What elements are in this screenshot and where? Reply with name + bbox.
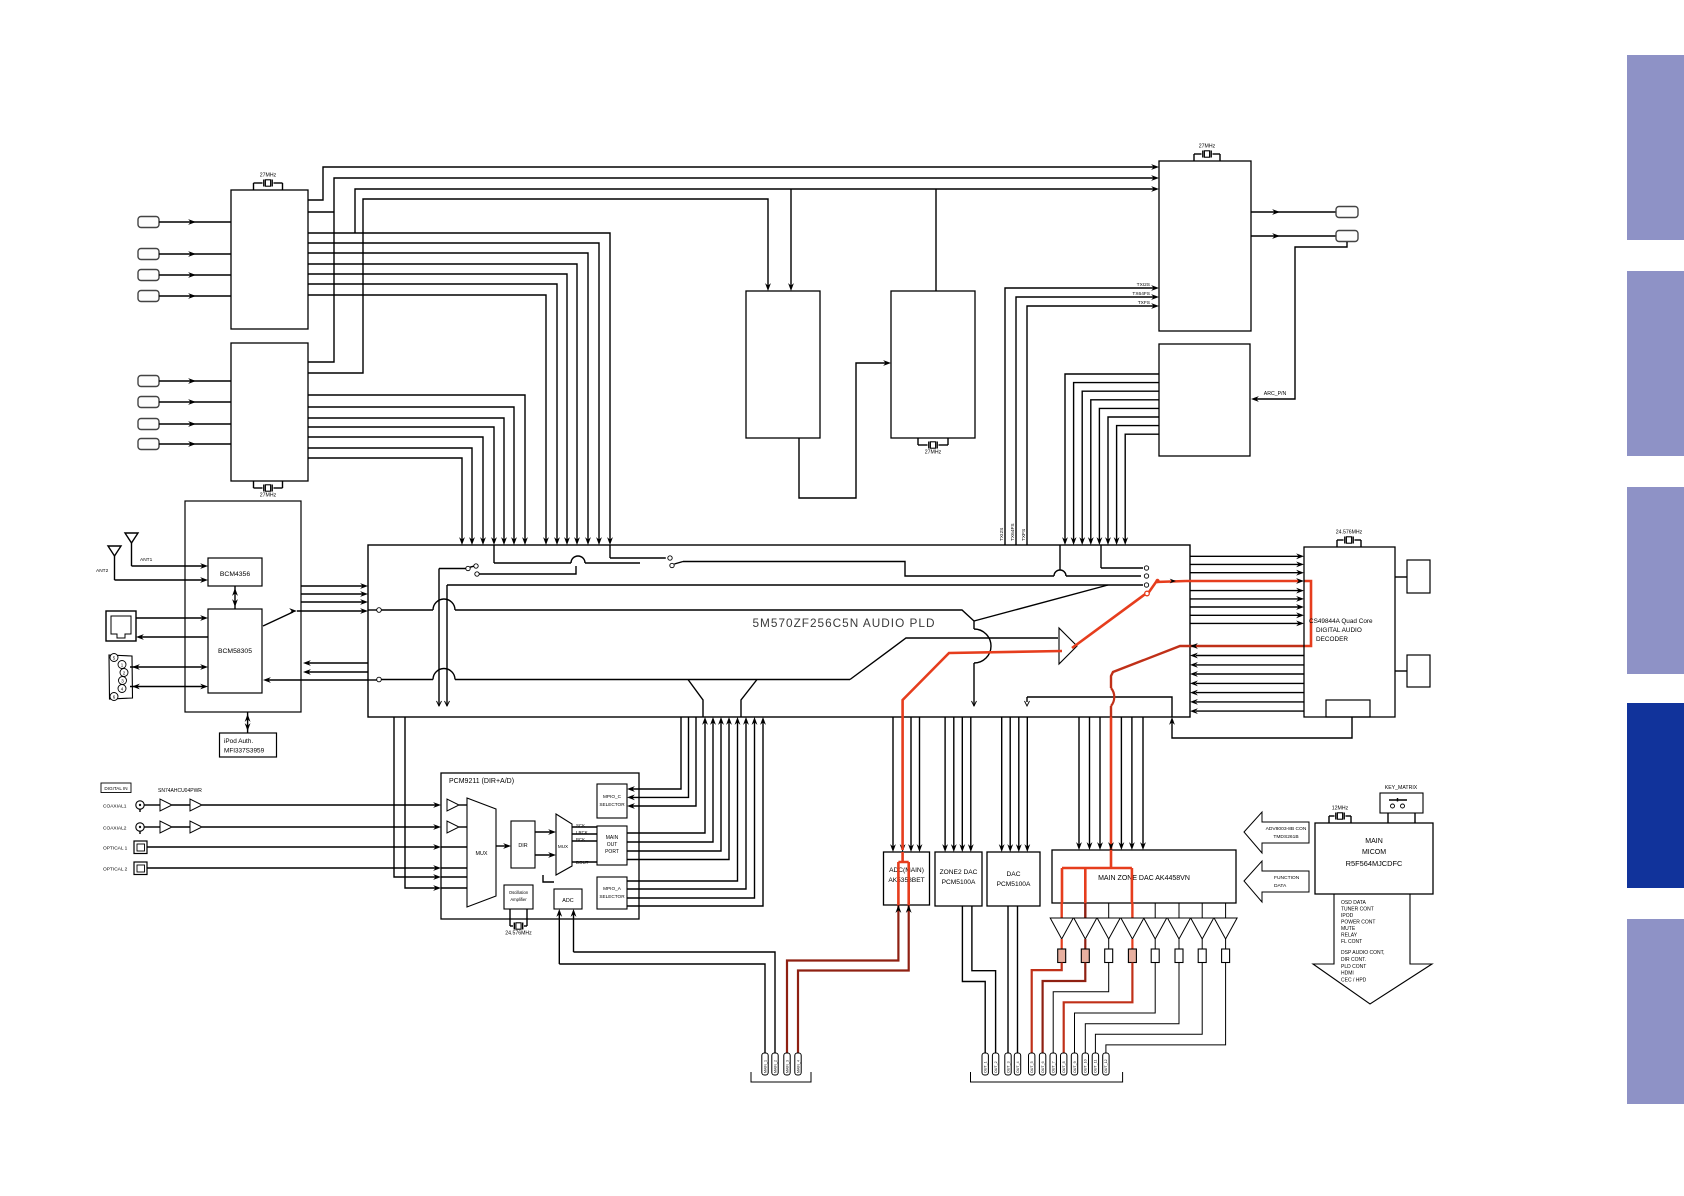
svg-text:Amplifier: Amplifier [510,897,527,902]
dark red wire ADC to pin4 [798,905,909,1053]
red wire PLD to MAIN DAC [1110,717,1113,850]
PCM9211 MPIO_A SELECTOR [597,877,627,909]
svg-text:DSP AUDIO CONT,: DSP AUDIO CONT, [1341,950,1385,956]
svg-text:27MHz: 27MHz [260,173,277,179]
svg-text:OUT_4: OUT_4 [1016,1061,1020,1073]
HDMI input connector J3 [138,270,231,281]
BCM58305 U8 [208,609,262,693]
wire ADC input 2 [571,909,775,1053]
wire branch L3 to block U4 [935,189,937,291]
svg-text:MICOM: MICOM [1362,849,1386,856]
side tab 5 [1627,919,1684,1104]
HDMI input connector J5 [138,376,231,387]
PLD switch SW3 circles [1144,566,1148,587]
connector pin PR5 [1029,1053,1035,1075]
svg-text:CEC / HPD: CEC / HPD [1341,978,1367,984]
wire ANT1 to BCM4356 [132,565,205,567]
svg-text:BCM4356: BCM4356 [220,571,250,578]
PCM9211 MAIN OUT PORT [597,826,627,865]
svg-text:AK5358BET: AK5358BET [888,877,924,884]
svg-text:TXFS: TXFS [1021,529,1027,541]
crystal X7 24.576MHz [510,909,527,919]
op-amp A12 [1214,918,1237,939]
svg-text:MAIN_3: MAIN_3 [785,1060,789,1073]
svg-text:DAC: DAC [1007,871,1021,878]
red wire decoder to PLD return [1111,646,1304,717]
svg-text:MAIN ZONE DAC AK4458VN: MAIN ZONE DAC AK4458VN [1098,875,1190,882]
wire PLD to BCM 2 [307,671,368,673]
DIGITAL IN label [101,783,131,793]
connector pin PL2 [772,1053,778,1075]
HDMI input connector J8 [138,439,231,450]
PCM9211 mux M1 [467,798,496,907]
wire coaxial1 [144,802,441,808]
wire DIN line2 [130,684,208,690]
svg-text:OSD DATA: OSD DATA [1341,900,1366,906]
wire L2 U2/U1 to HDMI TX [308,178,1155,362]
MAIN MICOM U17 [1315,823,1433,894]
svg-text:CS49844A Quad Core: CS49844A Quad Core [1309,618,1373,625]
PCM9211 internal wires [441,805,597,888]
svg-text:OUT_12: OUT_12 [1104,1059,1108,1073]
svg-text:OUT_7: OUT_7 [1052,1061,1056,1073]
ethernet connector J11 [106,611,136,641]
wire BCM4356-BCM58305 [232,586,238,609]
PLD bus line E [1025,697,1173,717]
MICOM control signal list [1341,900,1385,984]
svg-text:12MHz: 12MHz [1332,806,1349,812]
wire ADC input 1 [556,909,765,1053]
wire PLD to PCM mux 1 [394,717,441,880]
bus PLD to ZONE2 DAC [942,717,974,852]
resistor R5 [1151,949,1159,963]
wire PLD to PCM mux 2 [405,717,441,891]
decoder bottom notch [1326,700,1370,717]
wire branch L3 to repeater [790,189,792,287]
svg-text:MAIN_1: MAIN_1 [763,1060,767,1073]
crystal X1 27MHz [254,173,283,191]
ADC(MAIN) U13 [884,852,930,905]
wire U3 to U4 [799,363,886,498]
svg-text:MAIN: MAIN [606,835,619,841]
crystal X2 27MHz [254,481,283,499]
wire BCM to PLD 3 [301,601,364,603]
op-amp A11 [1191,918,1214,939]
crystal X8 12MHz [1329,806,1351,824]
coaxial connector 1 [136,801,144,812]
svg-text:TUNER CONT: TUNER CONT [1341,907,1374,913]
PLD vertical v2 [445,585,450,706]
PLD stub top1 [1059,545,1061,570]
resistor R7 [1198,949,1206,963]
svg-text:iPod Auth.: iPod Auth. [224,738,253,745]
HDMI TX block U5 [1159,161,1251,331]
op-amp A10 [1168,918,1191,939]
svg-text:24.576MHz: 24.576MHz [505,931,532,937]
op-amp A7 [1097,918,1120,939]
svg-text:OUT_9: OUT_9 [1073,1061,1077,1073]
svg-text:COAXIAL2: COAXIAL2 [103,826,127,832]
op-amp A6 [1074,918,1097,939]
PCM9211 mux M2 [556,814,572,875]
svg-text:OUT_1: OUT_1 [984,1061,988,1073]
svg-text:MAIN_2: MAIN_2 [773,1060,777,1073]
PCM9211 DIR [511,821,535,868]
wire L3 U1 to HDMI TX with branches [355,189,1155,233]
connector pin PR2 [992,1053,998,1075]
HDMI input block U2 [231,343,308,481]
decoder side box 1 [1395,560,1430,593]
decoder U11 CS49844A [1304,547,1395,717]
connector pin PR8 [1061,1053,1067,1075]
red wire PLD to decoder [1186,580,1300,583]
buffer A1 [160,799,172,811]
wire TX64FS [1016,297,1155,545]
red path PLD to ADC [903,651,1062,717]
svg-text:RELAY: RELAY [1341,933,1358,939]
side tab 2 [1627,271,1684,456]
svg-text:DIR: DIR [518,843,527,849]
iPod Auth box U9 [220,712,277,757]
PLD bus line A [447,584,1143,586]
svg-text:FUNCTION: FUNCTION [1274,875,1300,881]
svg-text:OPTICAL 2: OPTICAL 2 [103,867,128,873]
wires amps to connector pins [1032,963,1226,1054]
svg-text:MFI337S3959: MFI337S3959 [224,748,265,755]
ZONE2 DAC U14 [935,852,982,906]
PLD buffer amp [1059,628,1077,664]
svg-text:R5F564MJCDFC: R5F564MJCDFC [1346,859,1403,868]
HDMI output connector J10 [1251,231,1358,242]
svg-text:BCM58305: BCM58305 [218,648,252,655]
svg-text:PORT: PORT [605,849,619,855]
crystal X4 27MHz [1194,144,1220,162]
HDMI input connector J7 [138,419,231,430]
connector pin PR11 [1092,1053,1098,1075]
antenna ANT2 [96,546,121,580]
connector pin PR12 [1103,1053,1109,1075]
repeater block U3 [746,291,820,438]
connector pin PL3 [784,1053,790,1075]
PCM9211 oscillation amplifier [504,885,533,909]
ADV8003 arrow [1244,812,1309,853]
svg-text:TX64FS: TX64FS [1010,523,1016,541]
wire DIN line1 [130,664,208,670]
wire BCM to PLD 2 [301,593,364,595]
resistor row [1062,939,1226,949]
red path buffer to switch [1072,581,1186,648]
svg-text:DIGITAL AUDIO: DIGITAL AUDIO [1316,627,1362,634]
svg-text:ARC_P/N: ARC_P/N [1264,391,1287,397]
optical connector 2 [134,862,147,875]
svg-text:PLD CONT: PLD CONT [1341,964,1366,970]
wire ARC_P/N [1256,242,1347,399]
block U4 [891,291,975,438]
resistor R4 [1128,949,1136,963]
wire bus U1 to PLD [308,233,613,545]
svg-text:MAIN: MAIN [1365,838,1383,845]
HDMI input connector J4 [138,291,231,302]
wire BCM to PLD 4 (switched) [263,608,368,626]
HDMI input connector J2 [138,249,231,260]
red path inside ADC [898,852,908,905]
module box network [185,501,301,712]
bracket left group [751,1072,811,1082]
BCM4356 U7 [208,558,262,586]
connector pin PR4 [1014,1053,1020,1075]
resistor R8 [1222,949,1230,963]
optical connector 1 [134,841,147,854]
wire bus U6 to PLD [1062,374,1159,545]
bracket right group [971,1072,1123,1082]
HDMI input connector J1 [138,217,231,228]
svg-text:24.576MHz: 24.576MHz [1336,530,1363,536]
PLD bus SW2 to SW3 [683,562,1141,577]
svg-text:ANT2: ANT2 [96,568,109,574]
PCM9211 U12 [441,773,639,919]
PLD diagonal to buffer [850,638,1058,680]
PCM9211 ADC [554,889,582,909]
svg-text:ADC: ADC [562,898,573,904]
bus PLD to ADC(MAIN) [890,717,922,852]
svg-text:OPTICAL 1: OPTICAL 1 [103,846,128,852]
svg-text:HDMI: HDMI [1341,971,1354,977]
ARC block U6 [1159,344,1250,456]
resistor R1 [1058,949,1066,963]
buffer A2 [190,799,202,811]
bus MAIN OUT PORT to PLD [627,717,732,860]
svg-text:TX64FS: TX64FS [1132,291,1150,297]
connector pin PL1 [762,1053,768,1075]
PCM9211 MPIO_C SELECTOR [597,784,627,818]
MICOM control arrow [1313,894,1432,1004]
connector pin PR1 [982,1053,988,1075]
DAC U15 [987,852,1040,906]
red path inside MAIN ZONE DAC [1062,850,1132,903]
svg-text:OUT_10: OUT_10 [1084,1059,1088,1073]
wire optical1 [147,844,441,850]
connector pin PR6 [1039,1053,1045,1075]
svg-text:27MHz: 27MHz [260,493,277,499]
svg-text:27MHz: 27MHz [925,450,942,456]
wire DAC to pin3 [1007,906,1009,1053]
svg-text:ADV8003-8B CON: ADV8003-8B CON [1266,826,1307,832]
coaxial connector 2 [136,823,144,834]
MAIN ZONE DAC U16 [1052,850,1236,903]
svg-text:PCM5100A: PCM5100A [997,881,1031,888]
svg-text:DATA: DATA [1274,883,1287,889]
svg-text:OUT_8: OUT_8 [1062,1061,1066,1073]
svg-text:MAIN_4: MAIN_4 [796,1060,800,1073]
HDMI output connector J9 [1251,207,1358,218]
connector pin PR7 [1050,1053,1056,1075]
FUNCTION DATA arrow [1244,861,1309,902]
svg-text:ANT1: ANT1 [140,557,153,563]
HDMI input connector J6 [138,397,231,408]
DIN connector J12 [109,654,133,701]
svg-text:SELECTOR: SELECTOR [599,894,625,899]
bus PLD to MPIO_C [627,717,696,809]
svg-text:OUT_2: OUT_2 [994,1061,998,1073]
wire L4 U2 to repeater [308,199,768,373]
connector pin PR10 [1082,1053,1088,1075]
svg-text:MPIO_A: MPIO_A [603,886,622,891]
wire L1 U1 to HDMI TX [308,167,1155,200]
antenna ANT1 [125,533,153,566]
wire ethernet in [136,617,204,619]
crystal X6 24.576MHz [1336,530,1363,548]
wire PLD to BCM 1 [307,662,368,664]
wire optical2 [147,865,441,871]
svg-text:TXI2S: TXI2S [999,528,1005,541]
svg-text:KEY_MATRIX: KEY_MATRIX [1385,785,1418,791]
svg-text:Oscillation: Oscillation [509,890,529,895]
svg-text:SELECTOR: SELECTOR [599,802,625,807]
connector pin PR9 [1071,1053,1077,1075]
svg-text:TXI2S: TXI2S [1137,282,1150,288]
wire ethernet out [140,636,208,638]
wire ANT2 to BCM4356 [115,579,205,581]
svg-text:ZONE2 DAC: ZONE2 DAC [940,869,978,876]
output amplifier row [1062,903,1226,918]
crystal X3 27MHz [918,438,948,456]
svg-text:5M570ZF256C5N AUDIO PLD: 5M570ZF256C5N AUDIO PLD [753,616,936,630]
svg-text:TXFS: TXFS [1138,300,1150,306]
wire ZONE2 to pin2 [972,906,996,1053]
svg-text:TMDS261B: TMDS261B [1273,834,1298,840]
KEY_MATRIX switch [1380,785,1423,823]
PLD bus line C [368,599,991,706]
bus PLD to MAIN ZONE DAC [1076,717,1146,850]
svg-text:MUTE: MUTE [1341,926,1356,932]
bus MPIO_A to PLD [627,717,766,906]
bus decoder to PLD [1190,643,1304,714]
svg-text:MUX: MUX [476,851,488,857]
side tab 3 [1627,487,1684,674]
side tab 1 [1627,55,1684,240]
wire DAC to pin4 [1017,906,1019,1053]
svg-text:DECODER: DECODER [1316,636,1348,643]
svg-text:ADC(MAIN): ADC(MAIN) [889,867,924,874]
svg-text:OUT_11: OUT_11 [1094,1060,1098,1073]
wire PLD to BCM58305 [267,679,368,681]
PCM9211 input buffer 2 [447,821,459,833]
svg-text:SN74AHCU04PWR: SN74AHCU04PWR [158,788,202,794]
wire BCM to PLD 1 [301,585,364,587]
svg-text:PCM9211 (DIR+A/D): PCM9211 (DIR+A/D) [449,778,514,785]
svg-text:27MHz: 27MHz [1199,144,1216,150]
svg-text:COAXIAL1: COAXIAL1 [103,804,127,810]
connector pin PR3 [1005,1053,1011,1075]
PLD vertical v1 [437,569,442,707]
svg-text:IPOD: IPOD [1341,913,1354,919]
svg-text:OUT_5: OUT_5 [1030,1061,1034,1073]
resistor R6 [1175,949,1183,963]
wire bus U2 to PLD [308,395,528,545]
svg-text:DIR CONT.: DIR CONT. [1341,957,1366,963]
red wire into ADC [901,717,904,850]
buffer A4 [190,821,202,833]
svg-text:MPIO_C: MPIO_C [603,794,622,799]
red wire decoder internal [1304,581,1311,646]
wire TXFS [1027,306,1155,545]
HDMI input block U1 [231,190,308,329]
PLD switch SW1 [439,545,640,576]
svg-text:OUT_6: OUT_6 [1041,1061,1045,1073]
wire TXI2S [1005,288,1155,545]
PLD bus line D [368,669,850,718]
op-amp A9 [1144,918,1167,939]
op-amp A5 [1050,918,1073,939]
resistor R2 [1081,949,1089,963]
bus PLD to decoder [1190,553,1304,626]
PLD switch SW2 [610,545,683,568]
svg-text:PCM5100A: PCM5100A [942,879,976,886]
AUDIO PLD U10 [368,545,1190,717]
PCM9211 input buffer 1 [447,799,459,811]
svg-text:FL CONT: FL CONT [1341,939,1362,945]
svg-text:OUT: OUT [607,842,618,848]
wire decoder feedback to PLD [1169,717,1352,738]
svg-text:OUT_3: OUT_3 [1006,1061,1010,1073]
bus PLD to DAC [999,717,1030,852]
op-amp A8 [1121,918,1144,939]
wire ZONE2 to pin1 [962,906,985,1053]
wire coaxial2 [144,824,441,830]
connector pin PL4 [795,1053,801,1075]
PLD switch SW1 output wire [480,566,577,574]
svg-text:MUX: MUX [558,844,568,849]
resistor R3 [1105,949,1113,963]
side tab 4 (active) [1627,703,1684,888]
svg-text:DIGITAL IN: DIGITAL IN [104,786,127,791]
buffer A3 [160,821,172,833]
dark red wire ADC to pin3 [787,905,898,1053]
PLD diagonal riser to SW3 [974,585,1108,621]
svg-text:POWER CONT: POWER CONT [1341,920,1375,926]
PLD stub top2 [1101,545,1143,568]
decoder side box 2 [1395,655,1430,687]
